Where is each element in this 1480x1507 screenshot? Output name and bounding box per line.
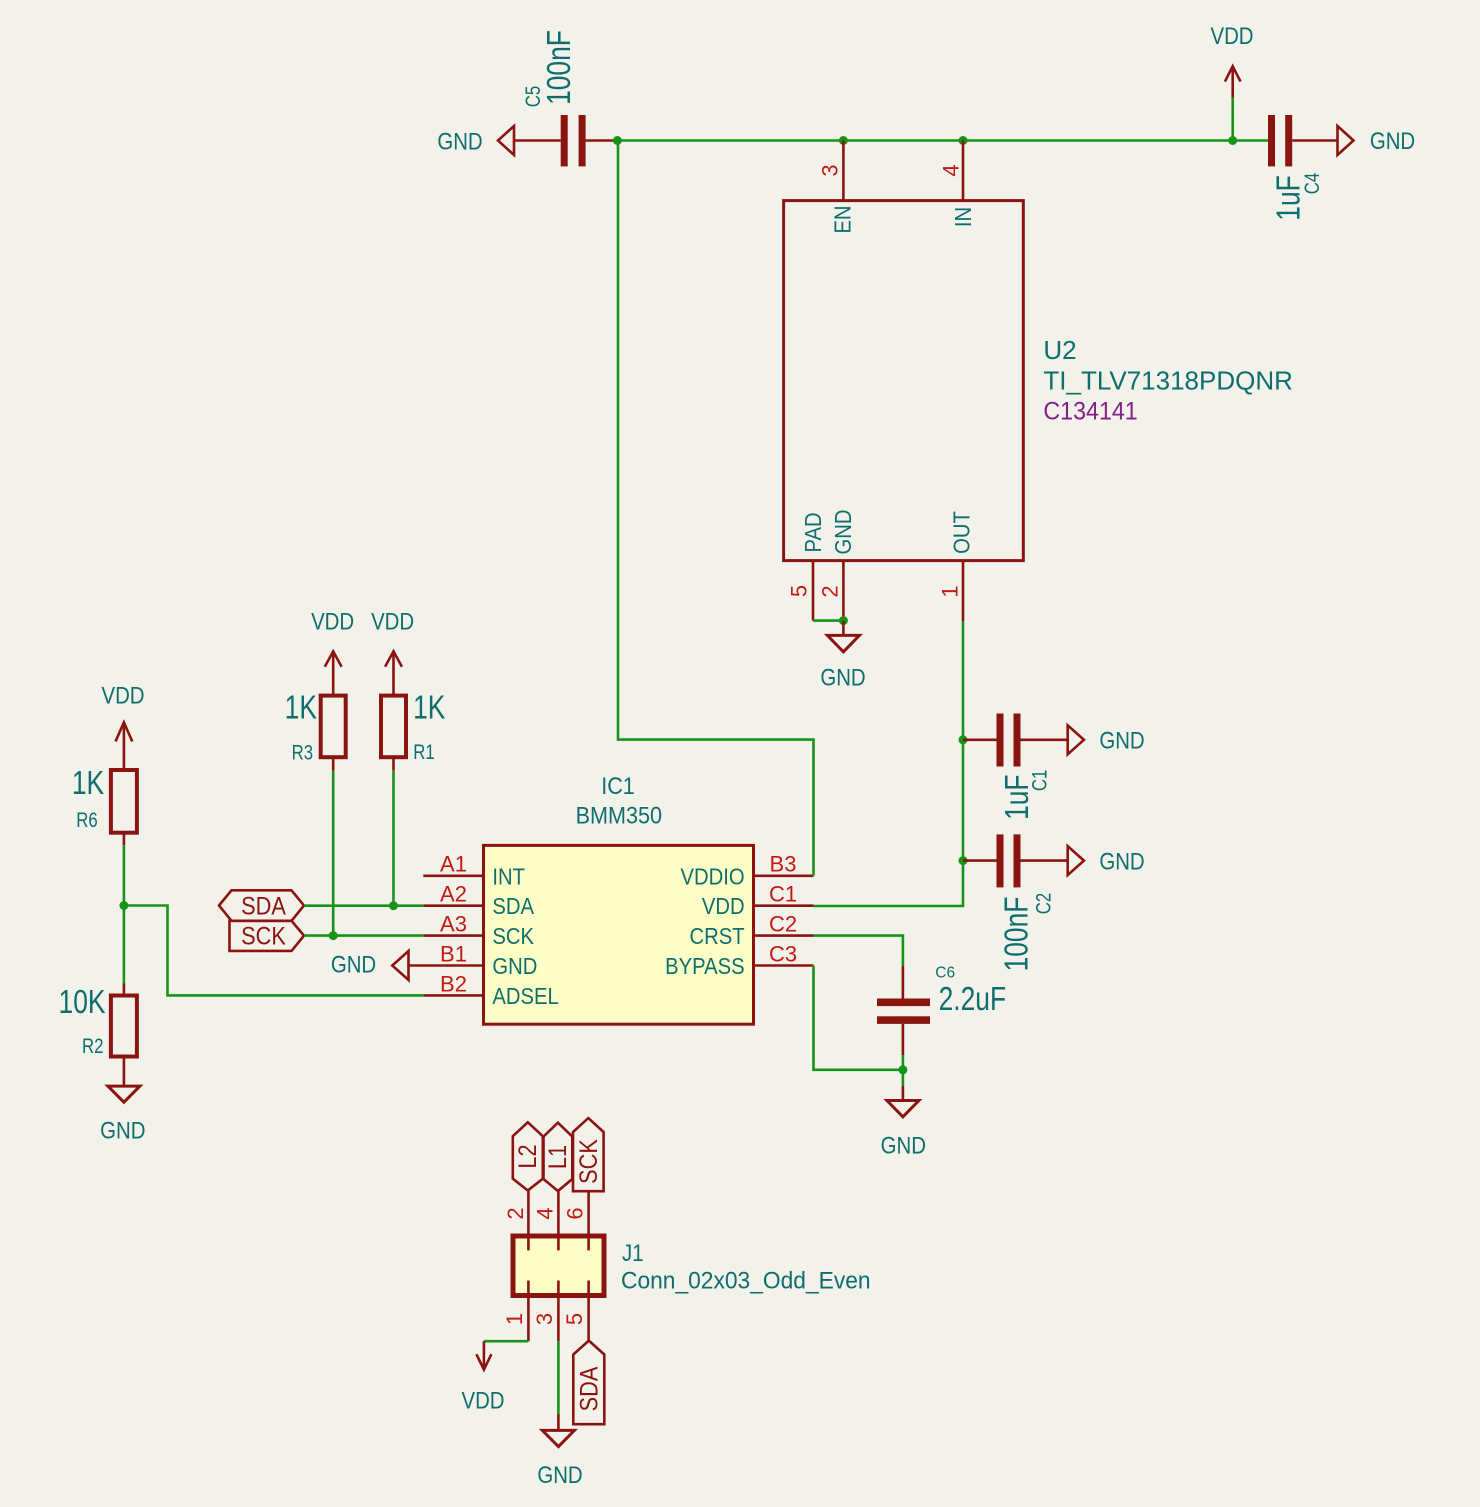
svg-text:C1: C1 — [1029, 770, 1052, 791]
svg-text:TI_TLV71318PDQNR: TI_TLV71318PDQNR — [1043, 366, 1293, 396]
svg-text:IN: IN — [950, 207, 977, 227]
node at C1 — [959, 735, 968, 744]
power VDD above R1 — [371, 608, 414, 667]
svg-text:2.2uF: 2.2uF — [939, 981, 1007, 1017]
capacitor C1 1uF — [963, 714, 1068, 820]
label L1 — [544, 1123, 573, 1191]
svg-text:GND: GND — [1099, 848, 1144, 875]
wire BYPASS net — [814, 966, 903, 1070]
svg-text:CRST: CRST — [690, 923, 745, 950]
capacitor C6 2.2uF — [877, 965, 1006, 1055]
pin C3 BYPASS — [665, 941, 813, 979]
svg-text:B1: B1 — [440, 941, 467, 966]
pin 2 — [503, 1191, 528, 1237]
pin 5 PAD — [787, 512, 827, 620]
wire pin1 to VDD — [484, 1340, 529, 1343]
pin 4 IN — [939, 141, 977, 228]
svg-text:GND: GND — [100, 1117, 145, 1144]
pin A1 INT — [423, 852, 525, 890]
pin 4 — [533, 1191, 559, 1236]
pin 1 OUT — [938, 511, 975, 621]
svg-text:VDD: VDD — [1210, 23, 1253, 50]
svg-text:SDA: SDA — [575, 1366, 603, 1411]
svg-text:A2: A2 — [440, 882, 467, 907]
svg-text:VDDIO: VDDIO — [681, 863, 745, 890]
svg-text:R6: R6 — [76, 809, 97, 832]
node at VDD/C4 — [1228, 136, 1237, 145]
wire top rail — [617, 139, 1268, 142]
wire R6 to R2 — [123, 845, 126, 983]
wire OUT net vertical — [814, 621, 964, 906]
wire R1 to SDA — [392, 771, 395, 906]
power VDD top right — [1210, 23, 1253, 141]
pin 3 — [532, 1296, 558, 1342]
svg-text:C3: C3 — [769, 941, 797, 966]
power GND below J1 — [537, 1414, 582, 1488]
svg-text:Conn_02x03_Odd_Even: Conn_02x03_Odd_Even — [621, 1267, 871, 1294]
svg-text:U2: U2 — [1043, 335, 1076, 365]
svg-text:4: 4 — [533, 1207, 558, 1219]
power VDD above R6 — [101, 682, 144, 741]
pin 1 — [502, 1296, 528, 1342]
svg-text:C6: C6 — [935, 965, 955, 982]
svg-text:SDA: SDA — [492, 893, 534, 920]
svg-text:SDA: SDA — [241, 892, 286, 920]
svg-text:GND: GND — [1370, 128, 1415, 155]
svg-text:GND: GND — [1099, 727, 1144, 754]
svg-text:C134141: C134141 — [1043, 398, 1137, 426]
power GND below R2 — [100, 1086, 145, 1144]
IC IC1 BMM350 — [484, 845, 754, 1024]
svg-text:1K: 1K — [413, 690, 445, 726]
svg-text:GND: GND — [537, 1462, 582, 1489]
node R1/SDA — [389, 901, 398, 910]
power GND below C6 — [881, 1086, 926, 1159]
label SDA at J1 — [573, 1341, 604, 1425]
svg-text:R1: R1 — [413, 741, 434, 764]
svg-text:1: 1 — [502, 1313, 527, 1325]
connector J1 Conn_02x03_Odd_Even — [513, 1236, 604, 1296]
svg-text:GND: GND — [881, 1132, 926, 1159]
svg-text:BMM350: BMM350 — [576, 801, 662, 828]
node below pin2 — [839, 616, 848, 625]
svg-text:VDD: VDD — [371, 608, 414, 635]
svg-text:GND: GND — [820, 664, 865, 691]
power GND at pin B1 — [331, 951, 409, 980]
svg-text:2: 2 — [818, 585, 843, 597]
svg-text:L2: L2 — [514, 1144, 542, 1168]
svg-text:6: 6 — [563, 1207, 588, 1219]
svg-text:A3: A3 — [440, 912, 467, 937]
svg-text:B2: B2 — [440, 971, 467, 996]
capacitor C5 100nF — [514, 30, 617, 166]
svg-text:3: 3 — [818, 164, 843, 176]
svg-text:C4: C4 — [1301, 172, 1324, 194]
wire VDDIO net — [618, 141, 814, 876]
svg-text:100nF: 100nF — [999, 897, 1035, 972]
pin 5 — [562, 1296, 589, 1341]
node at EN — [839, 136, 848, 145]
svg-text:SCK: SCK — [241, 922, 286, 950]
svg-text:1K: 1K — [72, 765, 104, 801]
wire SCK net — [304, 934, 423, 937]
power GND right of C4 — [1338, 126, 1416, 155]
svg-text:L1: L1 — [544, 1145, 572, 1169]
resistor R2 10K — [59, 984, 137, 1087]
svg-text:1: 1 — [938, 585, 963, 597]
svg-text:INT: INT — [492, 863, 525, 890]
label L2 — [513, 1122, 543, 1190]
label SDA — [219, 890, 304, 921]
svg-text:SCK: SCK — [575, 1139, 603, 1184]
power GND left of C5 — [437, 126, 514, 155]
svg-text:R2: R2 — [82, 1035, 103, 1058]
svg-text:GND: GND — [331, 951, 376, 978]
power VDD below J1 (pointing down) — [461, 1341, 504, 1414]
svg-text:100nF: 100nF — [541, 30, 577, 105]
wire SDA net — [304, 904, 423, 907]
svg-text:GND: GND — [492, 953, 537, 980]
svg-text:2: 2 — [503, 1207, 528, 1219]
wire R3 to SCK — [332, 771, 335, 936]
power VDD above R3 — [311, 608, 354, 667]
svg-text:4: 4 — [939, 164, 964, 176]
svg-text:EN: EN — [829, 205, 856, 233]
wire pin5 to pin2 — [813, 619, 843, 622]
pin C1 VDD — [702, 882, 814, 920]
power GND below U2 — [820, 621, 865, 691]
svg-text:1K: 1K — [285, 690, 317, 726]
pin C2 CRST — [690, 912, 814, 950]
regulator U2 TI_TLV71318PDQNR — [784, 201, 1024, 561]
svg-text:C1: C1 — [769, 882, 797, 907]
svg-text:5: 5 — [787, 585, 812, 597]
pin B2 ADSEL — [423, 971, 558, 1009]
node at IN — [959, 136, 968, 145]
wire C6 bottom — [902, 1055, 905, 1086]
svg-text:C2: C2 — [769, 912, 797, 937]
svg-text:BYPASS: BYPASS — [665, 953, 744, 980]
svg-text:VDD: VDD — [461, 1387, 504, 1414]
svg-text:J1: J1 — [622, 1240, 644, 1267]
wire ADSEL net — [124, 906, 423, 996]
capacitor C4 1uF — [1268, 115, 1338, 221]
pin B1 GND — [409, 941, 538, 979]
svg-text:ADSEL: ADSEL — [492, 983, 558, 1010]
pin B3 VDDIO — [681, 852, 814, 890]
svg-text:VDD: VDD — [101, 682, 144, 709]
svg-text:R3: R3 — [292, 742, 313, 765]
resistor R6 1K — [72, 722, 137, 845]
svg-text:5: 5 — [562, 1313, 587, 1325]
capacitor C2 100nF — [963, 834, 1068, 971]
svg-text:GND: GND — [437, 128, 482, 155]
svg-text:SCK: SCK — [492, 923, 534, 950]
resistor R3 1K — [285, 651, 346, 770]
svg-text:A1: A1 — [440, 852, 467, 877]
label SCK — [230, 921, 305, 951]
node R3/SCK — [329, 931, 338, 940]
svg-text:B3: B3 — [770, 852, 797, 877]
wire pin3 to GND — [557, 1341, 560, 1414]
svg-text:VDD: VDD — [702, 893, 745, 920]
power GND right of C1 — [1068, 725, 1145, 754]
svg-text:IC1: IC1 — [601, 772, 635, 799]
wire CRST net — [814, 936, 903, 966]
node R6/R2/ADSEL — [119, 901, 128, 910]
power GND right of C2 — [1068, 846, 1145, 875]
pin 3 EN — [818, 141, 856, 234]
svg-text:3: 3 — [532, 1313, 557, 1325]
label SCK at J1 — [573, 1118, 604, 1191]
svg-text:OUT: OUT — [948, 511, 975, 554]
node below C6 — [898, 1065, 907, 1074]
pin A2 SDA — [423, 882, 534, 920]
svg-text:10K: 10K — [59, 984, 106, 1020]
node at C2 — [959, 856, 968, 865]
resistor R1 1K — [381, 651, 445, 770]
pin 6 — [563, 1191, 589, 1236]
node at C5 — [613, 136, 622, 145]
svg-text:GND: GND — [830, 510, 857, 555]
pin A3 SCK — [423, 912, 534, 950]
svg-text:VDD: VDD — [311, 608, 354, 635]
pin 2 GND — [818, 510, 857, 621]
svg-text:C2: C2 — [1033, 893, 1056, 914]
svg-text:PAD: PAD — [800, 512, 827, 552]
